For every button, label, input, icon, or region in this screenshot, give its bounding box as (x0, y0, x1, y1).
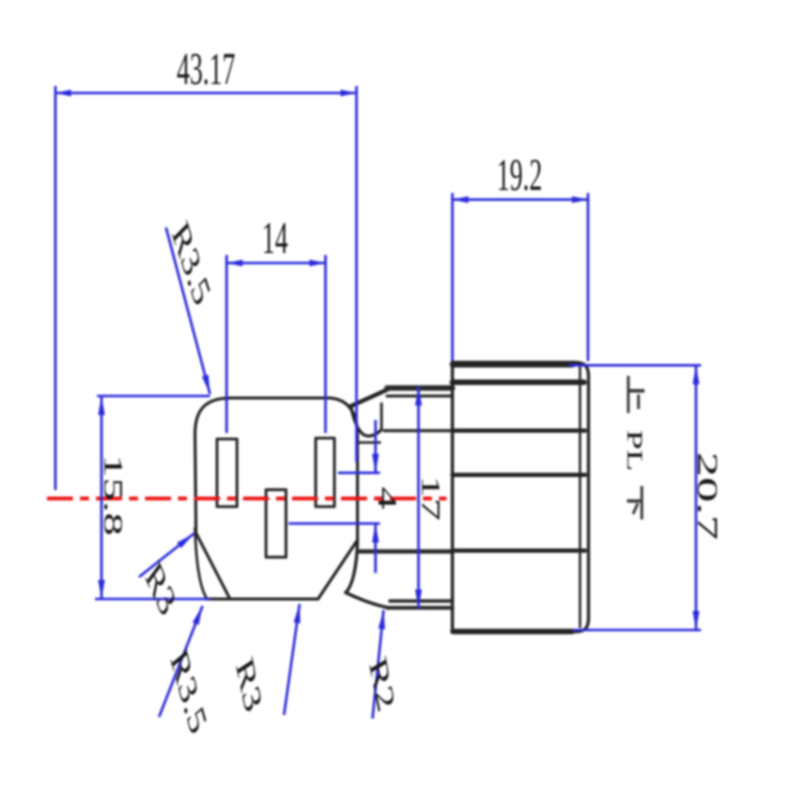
svg-text:15.8: 15.8 (98, 454, 127, 536)
svg-text:17: 17 (416, 475, 445, 520)
svg-text:14: 14 (262, 214, 288, 264)
svg-text:4: 4 (372, 487, 401, 510)
svg-text:19.2: 19.2 (497, 151, 542, 201)
svg-text:20.7: 20.7 (692, 452, 723, 540)
svg-text:PL: PL (622, 430, 646, 472)
svg-text:43.17: 43.17 (177, 45, 235, 95)
